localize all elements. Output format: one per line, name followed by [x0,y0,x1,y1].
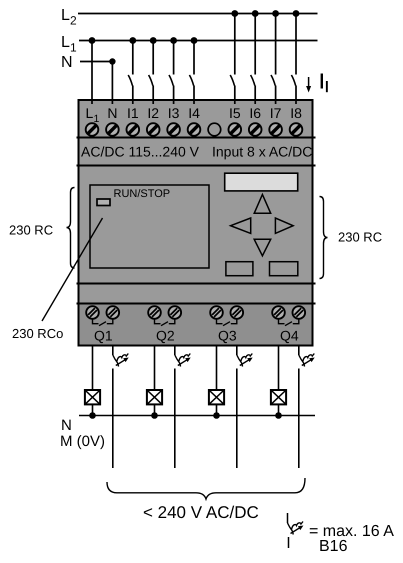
label N (return) [61,417,72,434]
label 230 RC (right) [338,230,382,245]
switch contact at input I8 [291,75,295,86]
svg-text:1: 1 [70,41,77,55]
wire L1 terminal drop [91,41,93,105]
screw terminal Q4 right [293,306,306,319]
wire I3 drop lower [173,86,175,105]
screw terminal L1 [86,123,99,136]
wire I2 drop lower [152,86,154,105]
current label I I [321,74,328,93]
wire load to N line Q1 [92,404,94,415]
svg-text:2: 2 [70,14,77,28]
svg-text:Q1: Q1 [94,328,113,344]
screw terminal I7 [269,123,282,136]
junction on L2 rail at I8 [293,10,300,17]
wire load to N line Q4 [278,404,280,415]
relay contact Q2 [155,319,175,326]
screw terminal Q1 right [107,306,120,319]
wire breaker drop upper Q1 [112,346,114,356]
label < 240 V AC/DC [143,503,259,522]
output label Q3 [218,328,237,344]
junction on L2 rail at I5 [231,10,238,17]
cursor key down [254,239,271,256]
left brace for 230 RC [67,188,75,269]
RUN/STOP label [114,188,171,200]
svg-text:Input 8 x AC/DC: Input 8 x AC/DC [212,144,312,160]
svg-text:< 240 V AC/DC: < 240 V AC/DC [143,503,259,522]
svg-text:230 RC: 230 RC [9,223,53,238]
svg-text:I2: I2 [147,105,159,121]
label 230 RC (left) [9,223,53,238]
junction on N return line at Q2 load [151,412,158,419]
brace under supply wires [107,478,305,499]
screw terminal Q2 left [148,306,161,319]
junction on N return line at Q3 load [213,412,220,419]
separator line above output terminals [77,303,316,305]
cursor key up [254,195,271,214]
N return line [79,415,315,417]
wire breaker drop upper Q4 [298,346,300,356]
svg-text:B16: B16 [319,538,348,555]
svg-text:RUN/STOP: RUN/STOP [114,188,171,200]
right brace for 230 RC [320,197,328,279]
junction on L1 rail at L1 drop [89,37,96,44]
relay contact Q1 [93,319,113,326]
junction on N rail at N drop [109,58,115,64]
svg-text:L: L [61,7,70,24]
legend breaker lower stub [288,537,290,548]
wire I6 drop upper [254,14,256,75]
wire I2 drop upper [152,41,154,75]
wire I6 drop lower [254,86,256,105]
switch contact at input I2 [149,75,153,86]
input current arrow [306,77,311,93]
unused terminal position (plain circle) [208,123,221,136]
svg-text:I3: I3 [168,105,180,121]
svg-text:230 RCo: 230 RCo [12,326,63,341]
wire L1 rail [79,40,318,42]
junction on L1 rail at I3 [170,37,177,44]
svg-text:N: N [61,417,72,434]
screw terminal I3 [167,123,180,136]
switch contact at input I7 [271,75,275,86]
terminal label I8 [290,105,302,121]
svg-text:I5: I5 [229,105,241,121]
wire load drop Q1 [92,346,94,391]
screw terminal Q3 left [210,306,223,319]
wire I1 drop lower [132,86,134,105]
relay contact Q3 [217,319,237,326]
svg-text:I4: I4 [188,105,200,121]
terminal label I5 [229,105,241,121]
separator line bottom of AC/DC label strip [77,165,316,167]
output label Q2 [156,328,175,344]
pointer line from 230 RCo to display [42,218,103,321]
svg-text:N: N [107,105,117,121]
circuit breaker F3 [237,354,253,367]
switch contact at input I4 [189,75,193,86]
wire breaker drop lower Q2 [174,369,176,469]
label M (0V) [60,433,105,450]
screw terminal I8 [290,123,303,136]
wire I7 drop lower [275,86,277,105]
svg-text:Q3: Q3 [218,328,237,344]
button ESC [226,262,253,276]
wire I5 drop upper [234,14,236,75]
net label L2 [61,7,77,28]
output label Q4 [280,328,299,344]
wire breaker drop lower Q4 [298,369,300,469]
wire breaker drop upper Q2 [174,346,176,356]
relay contact Q4 [279,319,299,326]
PLC module body outline [79,100,313,346]
label window [225,173,298,191]
wire breaker drop lower Q1 [112,369,114,469]
wire I5 drop lower [234,86,236,105]
svg-text:I1: I1 [127,105,139,121]
junction on L2 rail at I6 [252,10,259,17]
junction on L2 rail at I7 [272,10,279,17]
circuit breaker F2 [175,354,191,367]
svg-text:N: N [61,54,73,71]
separator line top of AC/DC label strip [77,137,316,139]
wire breaker drop lower Q3 [236,369,238,469]
wire N rail [80,61,115,63]
legend circuit breaker symbol [287,513,289,523]
wire I8 drop upper [295,14,297,75]
wire breaker drop upper Q3 [236,346,238,356]
separator line below main panel [77,283,316,285]
svg-text:I6: I6 [249,105,261,121]
switch contact at input I3 [169,75,173,86]
svg-text:I8: I8 [290,105,302,121]
status LED [97,199,110,206]
terminal label I1 [127,105,139,121]
label 230 RCo [12,326,63,341]
circuit breaker F1 [113,354,129,367]
wire I4 drop upper [193,41,195,75]
svg-text:230 RC: 230 RC [338,230,382,245]
svg-text:I7: I7 [270,105,282,121]
wire I7 drop upper [275,14,277,75]
label = max. 16 A [309,523,394,540]
load (lamp) E2 [147,390,162,404]
terminal label I4 [188,105,200,121]
rating label Input 8 x AC/DC [212,144,312,160]
junction on L1 rail at I4 [191,37,198,44]
terminal label I6 [249,105,261,121]
screw terminal I4 [188,123,201,136]
load (lamp) E4 [271,390,286,404]
load (lamp) E3 [209,390,224,404]
cursor key right [275,218,293,233]
screw terminal I6 [249,123,262,136]
screw terminal N [106,123,119,136]
label B16 [319,538,348,555]
cursor key left [231,218,251,233]
svg-text:L: L [86,105,94,121]
wire load drop Q2 [154,346,156,391]
wire load drop Q3 [216,346,218,391]
junction on N return line at Q4 load [275,412,282,419]
terminal label I2 [147,105,159,121]
wire I3 drop upper [173,41,175,75]
switch contact at input I1 [128,75,132,86]
button OK [270,262,298,276]
wire I8 drop lower [295,86,297,105]
wire I4 drop lower [193,86,195,105]
wire N terminal drop [111,62,113,105]
terminal label I3 [168,105,180,121]
wire load to N line Q2 [154,404,156,415]
svg-text:L: L [61,34,70,51]
load (lamp) E1 [85,390,100,404]
net label L1 [61,34,77,55]
wire load to N line Q3 [216,404,218,415]
screw terminal I2 [147,123,160,136]
output terminal strip shading [80,304,312,345]
junction on L1 rail at I2 [150,37,157,44]
terminal label I7 [270,105,282,121]
wire L2 rail [78,13,318,15]
junction on L1 rail at I1 [129,37,136,44]
wire load drop Q4 [278,346,280,391]
switch contact at input I5 [230,75,234,86]
terminal label N [107,105,117,121]
switch contact at input I6 [251,75,255,86]
svg-text:Q2: Q2 [156,328,175,344]
output label Q1 [94,328,113,344]
svg-text:AC/DC 115...240 V: AC/DC 115...240 V [81,144,200,160]
screw terminal I5 [229,123,242,136]
legend breaker squiggle [288,522,304,535]
junction on N return line at Q1 load [89,412,96,419]
rating label AC/DC 115...240 V [81,144,200,160]
wire I1 drop upper [132,41,134,75]
net label N [61,54,73,71]
circuit breaker F4 [299,354,315,367]
svg-text:M (0V): M (0V) [60,433,105,450]
screw terminal Q4 left [272,306,285,319]
screw terminal Q3 right [231,306,244,319]
screw terminal I1 [127,123,140,136]
screw terminal Q2 right [169,306,182,319]
svg-text:Q4: Q4 [280,328,299,344]
screw terminal Q1 left [86,306,99,319]
terminal label L1 [86,105,100,125]
display panel [90,185,209,268]
